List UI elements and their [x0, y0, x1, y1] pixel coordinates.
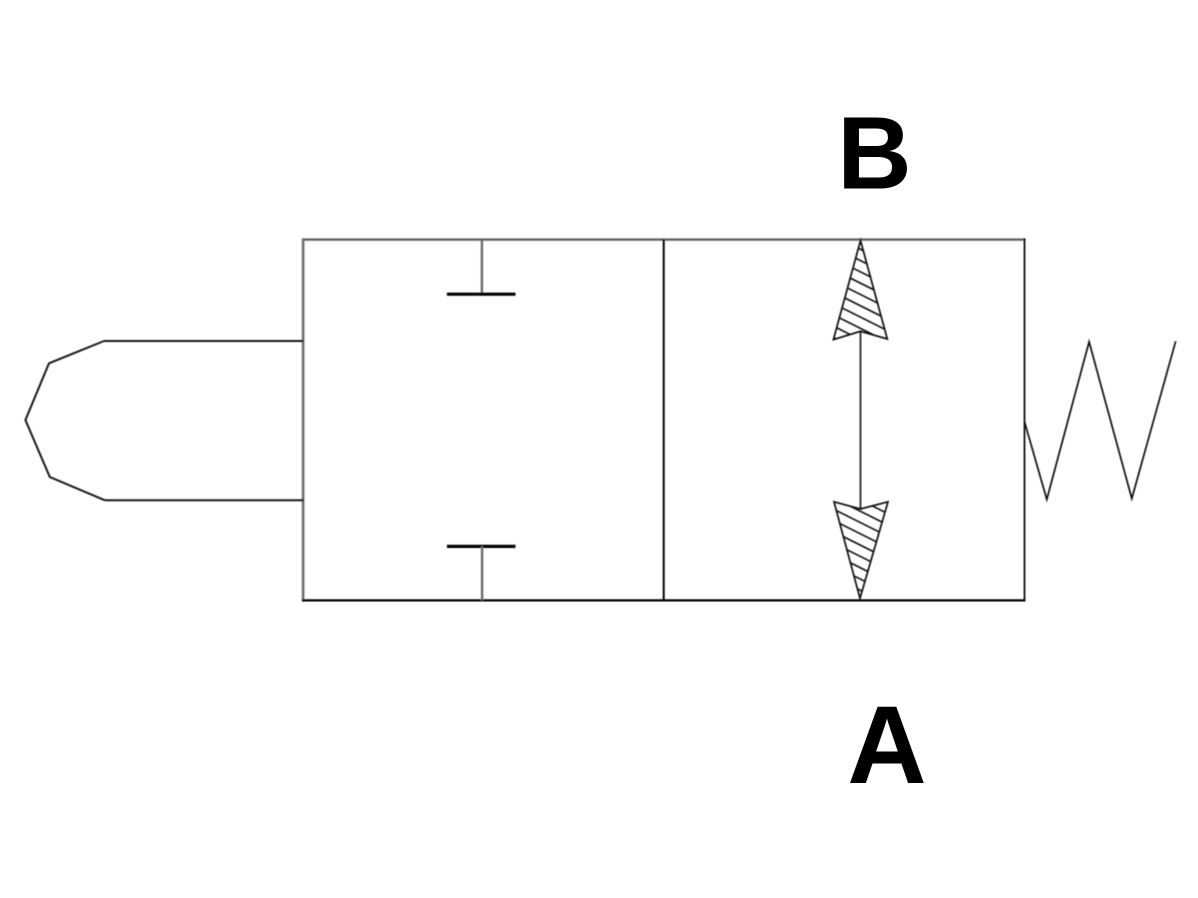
svg-text:B: B: [837, 95, 911, 210]
svg-text:A: A: [847, 684, 926, 807]
